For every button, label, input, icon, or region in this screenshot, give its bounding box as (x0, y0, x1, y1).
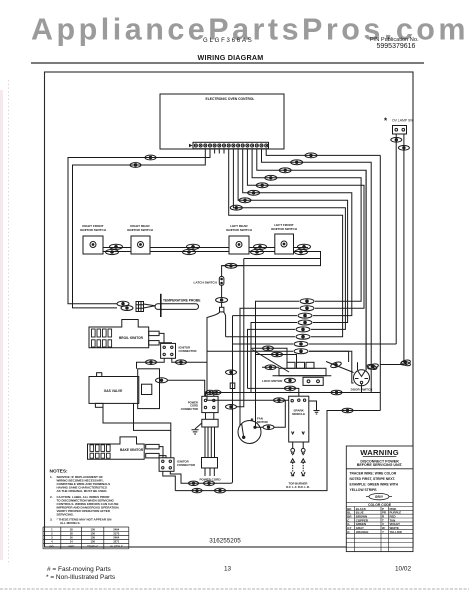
wire: EOC pin16 to right bus 1 (266, 149, 380, 156)
connector splice ladder row 1 (300, 299, 314, 304)
door switch side ticks (355, 378, 368, 380)
wire: row5 drop into module (248, 388, 299, 396)
wire: ladder row 1 left (256, 301, 300, 427)
connector splice pair LF-out b (295, 249, 308, 254)
svg-text:SERVICING.: SERVICING. (57, 513, 74, 517)
diagonal splice pair right of door switch (367, 363, 379, 370)
svg-text:MOTOR: MOTOR (257, 420, 269, 424)
bake ignitor terminal stub 2 (146, 453, 159, 458)
wire: door switch top leads (358, 170, 367, 370)
probe body capsule (155, 304, 199, 310)
svg-text:POWER CORD: POWER CORD (200, 478, 222, 482)
connector splice ladder row 7 (294, 342, 308, 347)
electrode up arrow left (291, 459, 295, 463)
connector splice lock-door diagonal (330, 361, 342, 369)
note 3 (50, 518, 111, 526)
wire: ladder row 3 left (233, 315, 298, 317)
wire: latch switch to node (221, 285, 223, 297)
door switch bottom pin (360, 381, 362, 383)
broil ignitor terminal stub 1 (149, 331, 159, 335)
warning box frame (346, 446, 413, 552)
connector splice right bus 3 (279, 168, 291, 173)
svg-text:* = Non-Illustrated Parts: * = Non-Illustrated Parts (46, 574, 116, 581)
connector splice pair LR-LF a (254, 244, 267, 249)
wire: door switch bottom to module bus (361, 384, 363, 393)
svg-text:ORANGE: ORANGE (356, 530, 369, 534)
connector splice pair RR-LR b (183, 249, 196, 254)
wire: RF to RR switch pair (103, 248, 131, 252)
wire: splice to node (221, 303, 223, 308)
wire gauge table (43, 527, 129, 549)
connector splice pair RF-RR b (106, 249, 119, 254)
power cord plug prongs (205, 468, 214, 476)
wire: lock base feed (262, 366, 279, 368)
connector splice ladder row 4 (298, 320, 312, 325)
electrode plug right (301, 448, 305, 452)
fan motor splice (263, 425, 274, 430)
wire: EOC pin10 to right bus 7 (238, 149, 348, 323)
connector splice lock feed lower (272, 352, 283, 357)
svg-text:5995379616: 5995379616 (377, 43, 416, 50)
door switch keyway (358, 371, 366, 377)
svg-text:TEMPERATURE PROBE: TEMPERATURE PROBE (163, 299, 201, 303)
wire: lock motor feed upper (251, 346, 354, 373)
connector splice on left bus lower (130, 163, 141, 168)
svg-text:OV LAMP SW: OV LAMP SW (392, 119, 414, 123)
divider (346, 468, 413, 470)
connector splice right bus 1 (305, 153, 317, 158)
svg-text:150: 150 (90, 540, 95, 544)
svg-text:BROIL IGNITOR: BROIL IGNITOR (119, 336, 144, 340)
ground to chassis (192, 423, 202, 434)
door switch circle (354, 370, 370, 386)
GR/Y example splice (366, 493, 392, 499)
svg-text:3.: 3. (50, 518, 53, 522)
wire: electrode lead left (292, 442, 294, 448)
power cord strain relief (202, 419, 218, 427)
svg-text:# = Fast-moving Parts: # = Fast-moving Parts (47, 566, 112, 573)
lock motor cam 1 (287, 362, 295, 368)
splice on harness upper (226, 370, 237, 375)
wire: node right branch down (223, 312, 225, 337)
connector splice pair RF-RR a (110, 244, 123, 249)
connector splice ladder row 3 (298, 313, 312, 318)
svg-text:LOCK MOTOR: LOCK MOTOR (262, 379, 283, 383)
fan motor terminal (254, 426, 256, 428)
connector splice ladder row 8 (294, 349, 308, 354)
probe splice pair a (117, 301, 129, 306)
connector splice module top feed (285, 386, 296, 391)
diagram outer border (45, 72, 414, 547)
wire: EOC pin15 to right bus 2 (262, 149, 372, 393)
svg-text:2464: 2464 (113, 527, 119, 531)
svg-text:ALL MODELS.: ALL MODELS. (60, 521, 80, 525)
electrode plug left (291, 448, 295, 452)
gas valve outlet splice (156, 378, 168, 383)
connector splice lock bus (342, 408, 353, 413)
svg-text:WIRING DIAGRAM: WIRING DIAGRAM (198, 53, 264, 62)
wire: stub1 to connector (159, 333, 164, 343)
connector splice right bus 4 (265, 175, 277, 180)
gas valve inner port (142, 384, 152, 394)
svg-text:150: 150 (90, 532, 95, 536)
broil ignitor body (89, 320, 149, 348)
wire: LF return loop to latch switch (222, 248, 321, 266)
wire: EOC pin5 drop to spark area (214, 149, 216, 154)
svg-text:YELLOW STRIPE.: YELLOW STRIPE. (350, 488, 378, 492)
probe cross bar (160, 294, 162, 317)
connector splice right bus 7 (239, 198, 251, 203)
connector splice pair LR-LF b (251, 249, 264, 254)
svg-text:EXAMPLE: GREEN WIRE WITH: EXAMPLE: GREEN WIRE WITH (350, 483, 399, 487)
connector splice lamp left (391, 138, 402, 143)
wire: lock to door diagonal (326, 362, 354, 373)
chassis mark (314, 411, 320, 415)
bake ignitor terminal stub 1 (146, 444, 159, 449)
wire: EOC pin7 drop to module right (223, 149, 225, 154)
wire: electrode lead right (302, 442, 304, 448)
wire: aux vertical from switch row (236, 259, 321, 407)
electrode tip right (301, 472, 305, 476)
svg-text:105: 105 (90, 536, 95, 540)
wire: EOC pin12 to right bus 5 (247, 149, 364, 308)
probe splice pair b (121, 306, 133, 311)
connector splice latch top (225, 263, 237, 268)
scan artifact left pink column (0, 90, 3, 560)
svg-text:DOOR SWITCH: DOOR SWITCH (351, 387, 373, 391)
wire: bake connector to bus A (170, 471, 230, 483)
wire: LR to LF switch pair (249, 248, 275, 252)
connector splice ladder row 2 (300, 306, 314, 311)
wire: lock motor feed lower (256, 355, 297, 363)
svg-text:105: 105 (90, 527, 95, 531)
wire: module feed bus (175, 155, 380, 490)
wire: EOC pin11 to right bus 6 (243, 149, 352, 316)
title underline (31, 62, 424, 64)
strip left pointer (189, 144, 193, 147)
svg-text:2.: 2. (50, 495, 53, 499)
svg-text:TRACER WIRE: WIRE COLOR: TRACER WIRE: WIRE COLOR (350, 472, 397, 476)
svg-text:WARNING: WARNING (360, 448, 399, 457)
wire: gas valve notch to bake connector (103, 407, 171, 458)
svg-text:R.F. L.F. R.R. L.R.: R.F. L.F. R.R. L.R. (286, 485, 310, 489)
lock motor cam 2 (297, 362, 305, 368)
svg-text:18: 18 (70, 527, 73, 531)
spark module bottom pins (292, 432, 305, 435)
probe plug hatched box (136, 302, 144, 312)
broil ignitor terminal stub 2 (149, 341, 159, 345)
svg-text:LATCH SWITCH: LATCH SWITCH (194, 280, 218, 284)
power cord connector block (202, 396, 218, 412)
connector splice ladder row 5 (296, 327, 310, 332)
bake ignitor body (88, 437, 145, 459)
wire: lamp switch right lead down (380, 134, 404, 365)
svg-text:YELLOW: YELLOW (390, 530, 403, 534)
left rear ignitor switch S5 (229, 236, 249, 254)
broil ignitor connector C1 (161, 343, 176, 358)
terminal pin centers (195, 145, 267, 146)
oven lamp switch S2 (380, 126, 409, 365)
svg-text:316255205: 316255205 (209, 538, 241, 545)
left front ignitor switch S6 (275, 234, 294, 254)
wire: diagonal link (252, 350, 289, 373)
connector splice pair LF-out a (298, 244, 311, 249)
crossed splice companion (367, 364, 378, 371)
svg-text:NO.: NO. (50, 544, 55, 548)
svg-text:NOTES:: NOTES: (50, 469, 69, 475)
svg-text:*: * (251, 416, 254, 425)
wire: ladder row 6 left (226, 336, 295, 338)
wire: lamp switch left lead down (395, 134, 397, 344)
connector splice ladder row 6 (296, 334, 310, 339)
svg-text:2464: 2464 (113, 536, 119, 540)
splice on harness lower (226, 405, 237, 410)
svg-text:AS THE ORIGINAL MUST BE U: AS THE ORIGINAL MUST BE USED. (57, 489, 108, 493)
wire: EOC pin13 to right bus 4 (252, 149, 361, 301)
svg-text:GR/Y: GR/Y (375, 495, 384, 499)
wire: stub2 to connector (159, 342, 171, 345)
connector splice bus A (204, 481, 215, 486)
power cord splice pair (206, 390, 222, 394)
connector splice module bus (331, 390, 342, 395)
op component: electronic oven control box U1 (160, 94, 284, 149)
gas valve bottom notch (95, 403, 103, 407)
note 2 (50, 495, 120, 517)
wire: EOC pin3 left bus lower (73, 149, 206, 308)
connector splice under lock shelf (285, 378, 296, 383)
svg-text:CONNECTOR: CONNECTOR (181, 407, 198, 411)
svg-text:COLOR CODE: COLOR CODE (368, 503, 392, 507)
connector splice right bus 8 (230, 205, 242, 210)
wire: harness vertical x232 (231, 316, 233, 484)
terminal strip of EOC (193, 142, 269, 148)
svg-text:IGNITOR SWITCH: IGNITOR SWITCH (127, 228, 154, 232)
wire: ladder row 2 left (240, 308, 299, 425)
broil ignitor comb teeth (92, 329, 112, 347)
svg-text:16: 16 (70, 536, 73, 540)
svg-text:IGNITOR SWITCH: IGNITOR SWITCH (80, 228, 107, 232)
wire: ladder row 5 left (248, 329, 296, 388)
wire: broil connector return (172, 358, 207, 362)
connector splice latch bottom (216, 298, 228, 303)
svg-text:14: 14 (70, 540, 73, 544)
connector splice on left bus upper (145, 155, 156, 160)
latch switch inner dots (221, 278, 223, 280)
connector splice right bus 2 (291, 160, 303, 165)
right front ignitor switch S3 (83, 236, 103, 254)
wire: EOC pin4 left bus upper (68, 149, 210, 304)
connector splice right bus 5 (256, 183, 268, 188)
wire: EOC pin9 to right bus 8 (233, 149, 345, 330)
svg-text:GLGF366AS: GLGF366AS (203, 38, 254, 44)
electrode up arrow right (301, 459, 305, 463)
connector splice bus B second (192, 488, 202, 492)
svg-text:BEFORE SERVICING UNIT.: BEFORE SERVICING UNIT. (357, 463, 403, 467)
svg-text:TEMP °C: TEMP °C (87, 544, 98, 548)
svg-text:MODULE: MODULE (292, 412, 305, 416)
node junction block (220, 307, 224, 312)
connector splice bus B (215, 488, 226, 493)
svg-text:13: 13 (224, 566, 232, 573)
svg-text:NOTED FIRST, STRIPE NEXT.: NOTED FIRST, STRIPE NEXT. (350, 477, 396, 481)
bake ignitor connector C3 (159, 458, 174, 472)
tracer wire paragraph (350, 472, 399, 493)
svg-text:BAKE IGNITOR: BAKE IGNITOR (120, 448, 144, 452)
svg-text:IGNITOR SWITCH: IGNITOR SWITCH (226, 228, 253, 232)
svg-text:AWG: AWG (68, 544, 74, 548)
connector splice lock base (265, 365, 276, 370)
spark module box (289, 396, 309, 442)
wire: connector to strain relief (206, 413, 214, 420)
color code table (346, 502, 413, 551)
svg-text:10/02: 10/02 (395, 566, 411, 573)
lock motor cam 3 (306, 362, 314, 368)
wire: EOC pin8 to right bus 9 (229, 149, 343, 337)
right rear ignitor switch S4 (131, 236, 150, 254)
wire: broil connector to gas valve (137, 358, 165, 369)
svg-text:CONNECTOR: CONNECTOR (179, 349, 197, 353)
wire: ladder row 7 (233, 343, 397, 345)
wire: bake stub2 to connector (159, 456, 166, 458)
wire: ladder row 8 (207, 351, 354, 383)
scan artifact vertical dotted line (8, 80, 10, 565)
svg-text:1.: 1. (50, 475, 53, 479)
wire: row8 to lock assembly (309, 351, 349, 362)
svg-text:CONNECTOR: CONNECTOR (177, 463, 195, 467)
fan motor circle M1 (238, 421, 261, 444)
connector splice lock feed upper (263, 346, 274, 351)
wire: gas valve body to bake connector riser (134, 403, 171, 430)
gas valve top notch (97, 373, 102, 377)
connector splice broil right (176, 360, 187, 365)
wire: gas valve to power cord connector (168, 380, 205, 396)
svg-text:3271: 3271 (113, 540, 119, 544)
fan motor brush pointer (242, 424, 244, 437)
gas valve side housing (138, 369, 160, 409)
svg-text:18: 18 (70, 532, 73, 536)
connector splice node-left feed (274, 398, 285, 403)
wire: EOC pin14 to right bus 3 (257, 149, 366, 370)
connector splice lamp right (398, 146, 409, 151)
note 1 (50, 475, 110, 493)
wire: connector pin stub (213, 393, 215, 397)
svg-text:GAS VALVE: GAS VALVE (104, 389, 123, 393)
crossed splice companion lamp lead (401, 360, 411, 366)
probe taper (144, 304, 156, 308)
wire: module top right to chassis (309, 401, 317, 411)
wire: bake connector to bus B (163, 471, 176, 490)
connector splice pair RR-LR a (187, 244, 200, 249)
scan artifact bottom gray line (0, 588, 469, 590)
svg-text:IGNITOR SWITCH: IGNITOR SWITCH (271, 227, 298, 231)
lock switch block (303, 377, 323, 385)
power cord plug body (202, 458, 218, 469)
connector splice bus A second (189, 481, 199, 485)
terminal pins P1-P16 (194, 144, 267, 147)
wire: latch switch feed (222, 266, 243, 277)
svg-text:UL STYLE: UL STYLE (110, 544, 123, 548)
power cord cable (205, 427, 215, 458)
wire: EOC pin6 drop to spark top (218, 149, 220, 154)
spark module top pins (291, 400, 293, 402)
lock motor frame (279, 368, 326, 375)
diagonal splice on lamp lead (400, 359, 411, 366)
latch switch S7 body (219, 277, 224, 286)
connector splice broil left (146, 360, 157, 365)
wire: fan motor to spark module (256, 400, 285, 427)
svg-text:ELECTRONIC OVEN CONTROL: ELECTRONIC OVEN CONTROL (206, 97, 255, 101)
gas valve body (89, 377, 139, 404)
junction box on harness (230, 383, 235, 389)
wire: RR to LR switch pair (150, 248, 229, 252)
svg-text:Y: Y (382, 530, 384, 534)
wire: bake stub1 to connector (159, 447, 163, 458)
electrode tip left (291, 472, 295, 476)
wire: node left branch down (207, 312, 289, 400)
bake ignitor comb teeth (90, 445, 110, 458)
wire: ladder row 4 left (251, 323, 297, 393)
connector splice right bus 6 (248, 190, 260, 195)
lock motor base (273, 375, 332, 377)
svg-text:3173: 3173 (113, 532, 119, 536)
